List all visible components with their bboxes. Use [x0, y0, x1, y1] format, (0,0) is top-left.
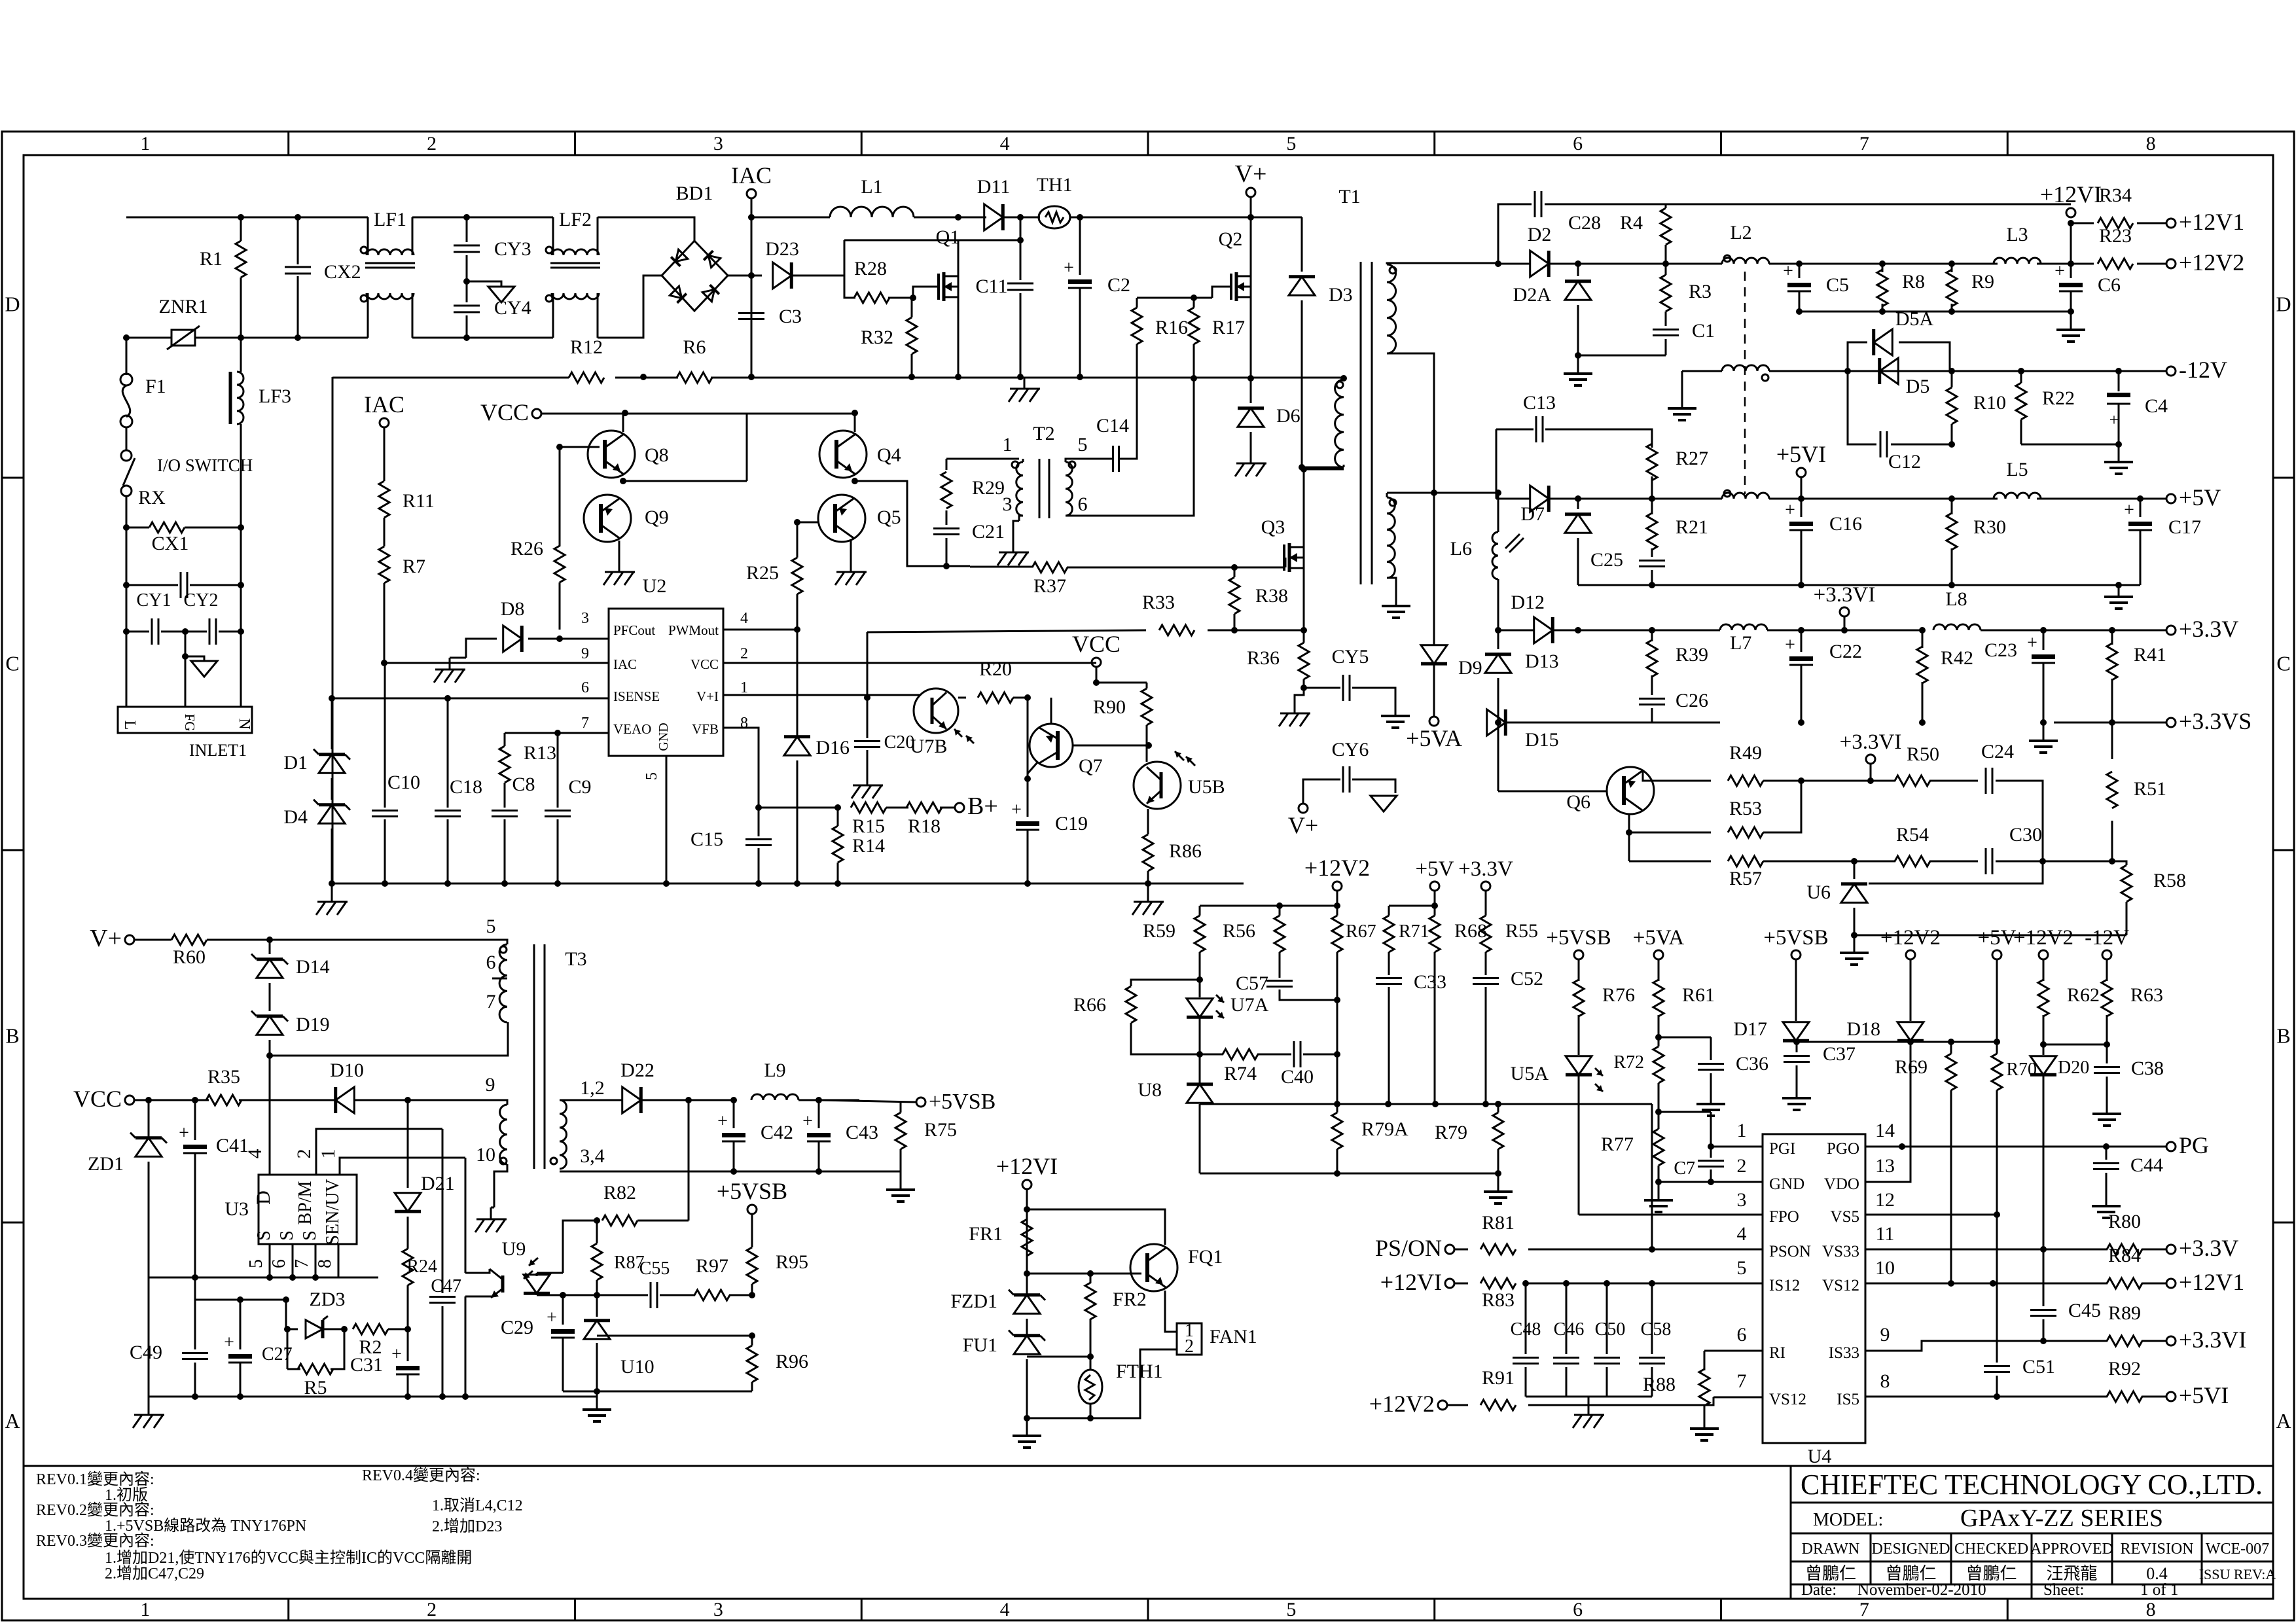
port -12V r2 — [2102, 950, 2111, 959]
svg-text:R82: R82 — [603, 1182, 636, 1204]
svg-text:Q7: Q7 — [1079, 755, 1103, 777]
ground U6 — [1854, 942, 1856, 953]
svg-text:曾鵬仁: 曾鵬仁 — [1965, 1564, 2017, 1583]
ground T3 pin10 — [490, 1207, 492, 1219]
svg-text:Q4: Q4 — [877, 444, 901, 466]
resistor R97 — [694, 1290, 730, 1300]
svg-text:S: S — [300, 1230, 320, 1241]
svg-text:R27: R27 — [1676, 448, 1708, 469]
svg-text:+12VI: +12VI — [1380, 1269, 1442, 1295]
svg-text:C12: C12 — [1888, 451, 1921, 473]
svg-text:D6: D6 — [1276, 405, 1300, 427]
port +12V1 — [2166, 219, 2176, 228]
resistor R84 — [2107, 1278, 2142, 1289]
ground C36 — [1710, 1094, 1712, 1104]
title block border — [1791, 1466, 2273, 1599]
wire +12VI down — [1026, 1189, 1028, 1296]
svg-text:R81: R81 — [1482, 1212, 1515, 1234]
port +3.3V out — [2166, 1245, 2176, 1254]
ground Q9 — [619, 541, 620, 560]
svg-text:R89: R89 — [2108, 1302, 2141, 1324]
svg-text:5: 5 — [246, 1259, 266, 1268]
svg-text:4: 4 — [1737, 1223, 1747, 1245]
svg-text:CY1: CY1 — [137, 590, 171, 611]
diode D22 — [560, 1099, 622, 1101]
svg-text:+12V2: +12V2 — [1369, 1391, 1435, 1417]
svg-text:R57: R57 — [1729, 868, 1762, 889]
svg-text:C3: C3 — [779, 306, 802, 327]
svg-text:APPROVED: APPROVED — [2030, 1541, 2113, 1558]
svg-text:R69: R69 — [1895, 1056, 1928, 1078]
svg-text:1.初版: 1.初版 — [105, 1486, 148, 1504]
port V+ top — [1246, 188, 1255, 197]
svg-text:CHIEFTEC TECHNOLOGY CO.,LTD.: CHIEFTEC TECHNOLOGY CO.,LTD. — [1801, 1469, 2263, 1501]
svg-text:F1: F1 — [145, 376, 166, 397]
capacitor C50 — [1606, 1283, 1608, 1354]
wire -12V left stub — [1682, 370, 1722, 372]
wire LED cathode row — [537, 1294, 648, 1296]
resistor R33 — [867, 630, 1146, 632]
capacitor C3 — [738, 312, 764, 314]
inductor L6 — [1498, 493, 1499, 532]
capacitor C22 polarized — [1801, 630, 1803, 652]
svg-text:DRAWN: DRAWN — [1802, 1541, 1860, 1558]
resistor R91 — [1447, 1404, 1468, 1406]
resistor R90 — [1146, 683, 1148, 688]
port +5V mid — [1430, 882, 1439, 891]
svg-text:N: N — [236, 718, 253, 729]
IC U4 supervisor box — [1763, 1134, 1865, 1443]
ground D2A — [1577, 363, 1579, 374]
svg-text:D5A: D5A — [1895, 308, 1934, 330]
wire T3 sec bottom — [560, 1171, 901, 1173]
wire D11 node down — [1020, 217, 1022, 240]
svg-text:C40: C40 — [1281, 1066, 1314, 1088]
transistor Q2 mosfet — [1230, 274, 1232, 300]
svg-text:VS12: VS12 — [1769, 1391, 1806, 1408]
wire U4 pin6 RI — [1704, 1350, 1763, 1352]
port +3.3VI mid — [1866, 755, 1875, 764]
svg-text:+: + — [1785, 500, 1795, 520]
left band row ticks — [2, 477, 24, 479]
resistor R2 — [353, 1324, 388, 1334]
capacitor C46 — [1566, 1283, 1568, 1354]
resistor R79 — [1498, 1104, 1499, 1113]
svg-text:R30: R30 — [1973, 516, 2006, 538]
capacitor C37 — [1796, 1042, 1798, 1052]
resistor R71 — [1388, 906, 1390, 916]
svg-text:U7B: U7B — [910, 736, 948, 757]
svg-text:ZNR1: ZNR1 — [159, 296, 208, 317]
wire Q2 gate bus — [1137, 297, 1212, 299]
svg-text:U3: U3 — [224, 1198, 249, 1220]
wire R77 to pin1 bus — [1659, 1111, 1711, 1113]
svg-text:D12: D12 — [1511, 592, 1545, 613]
diode D1 zener — [331, 698, 333, 749]
diode D15 — [1487, 709, 1506, 736]
svg-text:+12V1: +12V1 — [2179, 1269, 2244, 1295]
resistor R66 — [1131, 980, 1200, 986]
diode D8 — [466, 639, 497, 658]
wire PFC return drop — [332, 377, 334, 883]
wire T1 gate bus — [1234, 567, 1285, 569]
svg-text:+: + — [224, 1332, 234, 1353]
svg-text:I/O SWITCH: I/O SWITCH — [157, 455, 253, 475]
svg-text:BD1: BD1 — [676, 183, 713, 204]
svg-text:R37: R37 — [1033, 575, 1066, 597]
svg-text:R21: R21 — [1676, 516, 1708, 538]
svg-text:10: 10 — [476, 1144, 495, 1166]
svg-text:IAC: IAC — [613, 656, 637, 672]
svg-text:Q5: Q5 — [877, 507, 901, 528]
svg-text:U9: U9 — [502, 1238, 526, 1260]
svg-text:D20: D20 — [2058, 1058, 2089, 1078]
wire U2 pin7 VEAO — [505, 732, 609, 734]
svg-text:+12V2: +12V2 — [2013, 926, 2073, 950]
capacitor C23 polarized — [2043, 630, 2045, 650]
svg-text:U10: U10 — [620, 1356, 655, 1378]
svg-text:D14: D14 — [296, 956, 330, 978]
wire U2 pin2 VCC — [723, 662, 1096, 664]
zener FZD1 — [1014, 1295, 1040, 1314]
svg-text:4: 4 — [1000, 1599, 1010, 1620]
wire U5B collector — [1146, 745, 1148, 762]
wire C4 bottom — [2021, 444, 2119, 446]
inlet INLET1 — [126, 632, 128, 707]
resistor R67 — [1336, 906, 1338, 916]
resistor R22 — [2020, 371, 2022, 383]
svg-text:LF2: LF2 — [559, 209, 592, 230]
resistor R12 — [569, 372, 604, 383]
capacitor C42 polarized — [733, 1100, 735, 1128]
svg-text:GND: GND — [656, 722, 671, 751]
svg-text:R58: R58 — [2153, 870, 2186, 891]
svg-text:VFB: VFB — [692, 721, 719, 737]
svg-text:2: 2 — [427, 1599, 437, 1620]
svg-text:+3.3V: +3.3V — [1458, 857, 1513, 881]
svg-text:VDO: VDO — [1824, 1175, 1859, 1193]
resistor R80 — [2107, 1244, 2142, 1255]
wire U7B emitter to V+I — [914, 694, 920, 696]
svg-text:PG: PG — [2179, 1132, 2209, 1158]
svg-text:IS12: IS12 — [1769, 1277, 1800, 1294]
svg-text:L6: L6 — [1450, 538, 1472, 560]
svg-text:R7: R7 — [403, 556, 425, 577]
U3 pin2 wire — [316, 1129, 442, 1175]
wire R61 C36 bus — [1659, 1037, 1711, 1039]
svg-text:D18: D18 — [1846, 1018, 1880, 1040]
U3 pin1 wire — [340, 1158, 465, 1175]
svg-text:CY5: CY5 — [1332, 646, 1369, 668]
svg-text:7: 7 — [1737, 1370, 1747, 1392]
inductor LF2 winding A — [552, 249, 599, 255]
resistor R30 — [1951, 499, 1953, 514]
wire U4 pin12 VS5 — [1865, 1214, 1997, 1216]
svg-text:CX2: CX2 — [324, 261, 361, 283]
wire -12V rail — [1769, 370, 2166, 372]
wire C13 left drop — [1496, 429, 1498, 499]
bridge rectifier BD1 — [662, 241, 728, 311]
svg-text:C4: C4 — [2145, 395, 2168, 417]
svg-text:12: 12 — [1875, 1189, 1895, 1211]
diode D19 zener — [257, 1016, 283, 1035]
wire U2 pin9 IAC — [384, 662, 609, 664]
svg-text:D19: D19 — [296, 1014, 330, 1035]
capacitor C51 — [1996, 1215, 1998, 1363]
transistor FQ1 — [1130, 1244, 1177, 1291]
resistor R38 — [1234, 567, 1236, 577]
svg-text:C23: C23 — [1984, 639, 2017, 661]
port IAC mid — [380, 418, 389, 427]
svg-text:C1: C1 — [1692, 320, 1715, 342]
port +3.3V right — [2166, 626, 2176, 635]
svg-text:Date:: Date: — [1801, 1581, 1837, 1599]
svg-text:U6: U6 — [1806, 882, 1831, 903]
svg-text:L8: L8 — [1945, 588, 1967, 610]
svg-text:R54: R54 — [1896, 824, 1929, 846]
wire Q6 base from D13/D15 node — [1498, 722, 1499, 791]
svg-text:+5VA: +5VA — [1633, 926, 1685, 950]
svg-text:C38: C38 — [2131, 1058, 2164, 1079]
resistor R61 — [1658, 959, 1660, 981]
svg-text:R25: R25 — [746, 562, 779, 584]
transformer T3 secondary — [560, 1100, 567, 1169]
svg-text:2: 2 — [1185, 1336, 1194, 1357]
shunt regulator U6 — [1841, 884, 1867, 903]
ground -12V input — [1681, 398, 1683, 408]
svg-text:+3.3VI: +3.3VI — [1840, 730, 1902, 754]
svg-text:CX1: CX1 — [152, 533, 189, 554]
ground C48 bus — [1588, 1403, 1590, 1415]
svg-text:C15: C15 — [691, 829, 723, 850]
ground +3.3VS — [2043, 730, 2045, 741]
svg-text:R75: R75 — [924, 1119, 957, 1141]
svg-text:D21: D21 — [421, 1173, 455, 1194]
svg-text:D10: D10 — [330, 1060, 364, 1081]
resistor FR2 — [1090, 1274, 1092, 1283]
port VCC right — [1092, 658, 1101, 667]
svg-text:R4: R4 — [1620, 212, 1643, 234]
capacitor C2 polarized — [1079, 217, 1081, 275]
svg-text:R84: R84 — [2108, 1245, 2141, 1266]
ground C37 — [1796, 1088, 1798, 1098]
zener FU1 — [1014, 1336, 1040, 1355]
capacitor CX2 — [297, 217, 299, 264]
svg-text:R3: R3 — [1689, 281, 1712, 302]
svg-text:V+I: V+I — [696, 688, 719, 704]
thermistor FTH1 — [1079, 1370, 1102, 1404]
wire U5B emitter to R86 — [1147, 809, 1149, 815]
diode D13 — [1485, 654, 1511, 673]
svg-text:MODEL:: MODEL: — [1813, 1510, 1883, 1530]
resistor R39 — [1651, 630, 1653, 641]
svg-text:+5VA: +5VA — [1406, 725, 1462, 751]
svg-text:PSON: PSON — [1769, 1243, 1811, 1260]
resistor R57 — [1629, 861, 1711, 863]
svg-text:C18: C18 — [450, 776, 482, 798]
wire R33 to C20 node — [867, 632, 869, 698]
resistor R86 — [1143, 834, 1153, 871]
svg-text:R39: R39 — [1676, 644, 1708, 666]
capacitor C5 polarized — [1799, 264, 1801, 278]
wire PFC node row — [844, 240, 1020, 241]
svg-text:Sheet:: Sheet: — [2043, 1581, 2085, 1599]
wire R49 to R50 — [1801, 780, 1895, 782]
ground R36 — [1294, 702, 1296, 713]
svg-text:D: D — [2276, 293, 2291, 316]
svg-text:REV0.3變更內容:: REV0.3變更內容: — [36, 1532, 154, 1550]
svg-text:3: 3 — [713, 1599, 723, 1620]
svg-text:T2: T2 — [1033, 423, 1054, 444]
svg-text:+12V1: +12V1 — [2179, 209, 2244, 235]
svg-text:+12VI: +12VI — [2040, 181, 2102, 207]
port +12VI fan — [1022, 1180, 1031, 1189]
wire U4 pin1 — [1711, 1146, 1763, 1148]
ground Q4/Q5 — [850, 541, 852, 560]
svg-text:C58: C58 — [1641, 1319, 1672, 1340]
svg-text:L7: L7 — [1730, 632, 1751, 654]
svg-text:+: + — [391, 1344, 402, 1364]
wire R62 R63 link — [2043, 1044, 2107, 1046]
svg-text:FR1: FR1 — [969, 1223, 1003, 1245]
svg-text:FZD1: FZD1 — [950, 1291, 997, 1312]
svg-text:8: 8 — [315, 1259, 335, 1268]
svg-text:+: + — [1785, 635, 1795, 655]
svg-text:V+: V+ — [1235, 160, 1267, 188]
svg-text:R91: R91 — [1482, 1367, 1515, 1389]
wire U8 row to PSON — [1651, 1104, 1653, 1249]
svg-text:+: + — [179, 1123, 189, 1143]
svg-text:U5A: U5A — [1511, 1063, 1549, 1084]
svg-text:R77: R77 — [1601, 1133, 1634, 1155]
svg-text:C6: C6 — [2098, 274, 2121, 296]
title block date row — [2031, 1584, 2033, 1599]
svg-text:1: 1 — [140, 133, 150, 154]
svg-text:PGI: PGI — [1769, 1140, 1795, 1158]
resistor R88 — [1704, 1351, 1706, 1370]
svg-text:U2: U2 — [643, 575, 667, 597]
svg-text:CY6: CY6 — [1332, 739, 1369, 760]
svg-text:6: 6 — [1573, 1599, 1583, 1620]
svg-text:Q8: Q8 — [645, 444, 669, 466]
svg-text:+: + — [802, 1111, 813, 1132]
svg-text:L5: L5 — [2006, 459, 2028, 480]
resistor R68 — [1429, 916, 1440, 952]
resistor R34 — [2071, 223, 2094, 224]
svg-text:R23: R23 — [2099, 225, 2132, 247]
inductor LF1 winding A — [367, 249, 414, 255]
wire switch to RX — [126, 496, 128, 527]
svg-text:D15: D15 — [1525, 729, 1559, 751]
svg-text:1: 1 — [1737, 1120, 1747, 1141]
svg-text:+12VI: +12VI — [996, 1153, 1058, 1179]
svg-text:Q2: Q2 — [1219, 228, 1243, 250]
resistor R49 — [1728, 776, 1763, 786]
svg-text:D2: D2 — [1528, 224, 1552, 245]
wire +12VI branch — [2070, 223, 2072, 264]
port PG — [2166, 1142, 2176, 1151]
transistor Q8 — [588, 431, 635, 478]
svg-text:C47: C47 — [431, 1276, 461, 1296]
svg-text:D8: D8 — [501, 598, 525, 620]
resistor R59 — [1199, 906, 1201, 916]
svg-text:L3: L3 — [2006, 224, 2028, 245]
diode D7A vertical — [1565, 514, 1591, 533]
svg-text:+: + — [1783, 261, 1793, 281]
svg-text:C2: C2 — [1107, 274, 1130, 296]
varistor ZNR1 — [152, 337, 171, 339]
wire +12VI to FQ1 collector — [1027, 1209, 1165, 1245]
capacitor C25 — [1639, 560, 1665, 562]
wire VCC to C19 node — [1027, 698, 1029, 779]
capacitor C6 polarized — [2070, 264, 2072, 278]
svg-text:L: L — [121, 721, 138, 730]
svg-text:-12V: -12V — [2179, 357, 2227, 383]
svg-text:5: 5 — [1078, 434, 1088, 455]
svg-text:FG: FG — [182, 714, 198, 732]
svg-text:C50: C50 — [1595, 1319, 1626, 1340]
svg-text:C29: C29 — [501, 1317, 533, 1338]
svg-text:2: 2 — [427, 133, 437, 154]
svg-text:D: D — [253, 1190, 274, 1205]
resistor R70 — [1992, 1054, 2002, 1090]
capacitor C58 — [1651, 1283, 1653, 1354]
port -12V — [2166, 366, 2176, 376]
svg-text:R5: R5 — [304, 1377, 327, 1399]
diode D20 — [2043, 1044, 2045, 1055]
svg-text:R38: R38 — [1255, 585, 1288, 607]
svg-text:8: 8 — [2146, 133, 2156, 154]
svg-text:U8: U8 — [1138, 1079, 1162, 1101]
svg-text:13: 13 — [1875, 1155, 1895, 1177]
wire +5V sense vertical — [1996, 959, 1998, 1042]
svg-text:C21: C21 — [972, 521, 1005, 543]
ground R88 — [1704, 1418, 1706, 1429]
resistor R8 — [1882, 264, 1884, 272]
wire C48 gnd bus — [1526, 1396, 1652, 1398]
resistor R27 — [1647, 444, 1657, 480]
transistor Q3 mosfet — [1283, 544, 1285, 571]
svg-text:R34: R34 — [2099, 185, 2132, 206]
transformer T3 winding 9-10 — [500, 1105, 507, 1164]
svg-text:6: 6 — [1078, 493, 1088, 515]
capacitor C12 — [1848, 371, 1876, 444]
diode D6 zener — [1238, 408, 1264, 427]
port +12V1 out — [2166, 1279, 2176, 1288]
inductor L9 — [751, 1094, 798, 1100]
svg-text:D9: D9 — [1458, 657, 1482, 679]
svg-text:6: 6 — [486, 952, 496, 973]
ground C44 — [2106, 1196, 2108, 1206]
ground C6 bus — [2070, 319, 2072, 330]
wire row 1986 — [195, 1299, 286, 1301]
resistor R92 — [2107, 1391, 2142, 1402]
svg-text:R14: R14 — [852, 835, 885, 857]
svg-text:A: A — [2276, 1409, 2291, 1433]
svg-text:RI: RI — [1769, 1344, 1785, 1362]
svg-text:R61: R61 — [1682, 984, 1715, 1006]
svg-text:2.增加C47,C29: 2.增加C47,C29 — [105, 1565, 204, 1582]
inductor L8 — [1933, 624, 1981, 630]
svg-text:Q9: Q9 — [645, 507, 669, 528]
wire V+ to T3 pin5 — [270, 940, 507, 944]
svg-text:5: 5 — [1286, 1599, 1296, 1620]
svg-text:U4: U4 — [1808, 1446, 1832, 1467]
svg-text:R92: R92 — [2108, 1358, 2141, 1380]
svg-text:PS/ON: PS/ON — [1375, 1235, 1442, 1261]
wire +5V gnd bus — [1578, 584, 2140, 586]
resistor R29 — [946, 459, 948, 470]
